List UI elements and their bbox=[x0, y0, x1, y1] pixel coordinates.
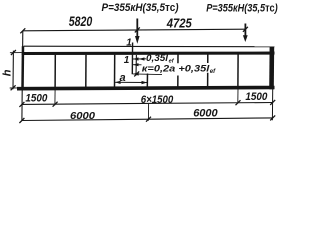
row1 tick 2 bbox=[53, 102, 58, 107]
load axis inside beam bbox=[135, 55, 137, 76]
svg-text:1: 1 bbox=[126, 37, 132, 48]
svg-text:6000: 6000 bbox=[70, 111, 95, 122]
load arrow 2 shaft bbox=[244, 24, 246, 37]
dimension text 4725 bbox=[166, 16, 192, 31]
left support axis line bbox=[21, 31, 24, 121]
svg-text:1500: 1500 bbox=[245, 91, 268, 103]
dim line k= bbox=[133, 64, 142, 66]
beam top thick band bbox=[22, 52, 275, 56]
arrow a2 bbox=[139, 57, 145, 60]
row1 tick 3 bbox=[236, 100, 241, 105]
h tick bottom bbox=[11, 85, 16, 90]
h extension bottom bbox=[10, 87, 19, 89]
svg-text:к=0,2а +0,35l: к=0,2а +0,35l bbox=[142, 63, 210, 74]
row2 dimension line bbox=[22, 118, 273, 121]
dimension text 5820 bbox=[69, 13, 93, 29]
beam bottom thick band bbox=[17, 88, 275, 89]
svg-text:а: а bbox=[120, 72, 126, 84]
text k=0,2a+0,35lef bbox=[142, 63, 216, 75]
svg-text:6000: 6000 bbox=[193, 108, 218, 120]
dim line 0,35lef bbox=[133, 58, 146, 60]
divider 4 bbox=[146, 74, 148, 88]
row1 tick 1 bbox=[19, 102, 24, 107]
h extension top bbox=[10, 52, 22, 54]
load P2 label bbox=[206, 3, 278, 15]
h dimension line bbox=[12, 51, 14, 90]
divider 1 bbox=[54, 55, 56, 88]
text 6000 right bbox=[193, 108, 218, 120]
arrow k1 bbox=[133, 63, 139, 66]
row1 tick 4 bbox=[270, 100, 275, 105]
divider 7 bbox=[237, 54, 239, 87]
h label bbox=[1, 69, 13, 76]
tick at load 2 bbox=[243, 27, 248, 32]
svg-text:P=355кН(35,5тс): P=355кН(35,5тс) bbox=[102, 2, 179, 14]
divider 5 bbox=[177, 54, 179, 63]
text 6000 left bbox=[70, 111, 95, 122]
load arrow 1 shaft bbox=[136, 19, 138, 38]
divider 2 bbox=[85, 55, 87, 88]
text 1500 left bbox=[25, 93, 48, 105]
load arrow 2 head bbox=[243, 35, 248, 42]
row2 tick right bbox=[270, 115, 275, 120]
a arrow right bbox=[142, 81, 148, 84]
a label bbox=[120, 72, 126, 84]
svg-text:еf: еf bbox=[210, 69, 216, 75]
load arrow 1 head bbox=[135, 36, 140, 44]
text 1500 right bbox=[245, 91, 268, 103]
ext divider1 down bbox=[54, 89, 56, 105]
svg-text:h: h bbox=[1, 69, 13, 76]
section line 1-1 bbox=[131, 43, 133, 75]
svg-text:1: 1 bbox=[124, 55, 130, 66]
a arrow left bbox=[115, 81, 121, 84]
load P1 label bbox=[102, 2, 179, 14]
arrow a1 bbox=[133, 57, 139, 60]
section label 1 lower bbox=[124, 55, 130, 66]
beam left edge bbox=[21, 46, 24, 89]
text 0,35lef bbox=[146, 53, 175, 64]
arrow x1 bbox=[133, 72, 139, 75]
divider 6 bbox=[207, 54, 209, 63]
top dimension line bbox=[23, 29, 246, 31]
svg-text:5820: 5820 bbox=[69, 13, 93, 29]
h tick top bbox=[11, 50, 16, 55]
svg-text:0,35l: 0,35l bbox=[146, 53, 169, 63]
svg-text:P=355кН(35,5тс): P=355кН(35,5тс) bbox=[206, 3, 278, 15]
beam right edge bbox=[269, 47, 274, 90]
middle extension bbox=[147, 104, 149, 121]
row2 tick 1 bbox=[19, 118, 24, 123]
svg-text:6×1500: 6×1500 bbox=[141, 94, 174, 106]
slash at load axis crossing bbox=[134, 71, 139, 76]
section label 1 upper bbox=[126, 37, 132, 48]
beam top thin line bbox=[24, 45, 275, 48]
a dimension line bbox=[115, 81, 148, 83]
text 6x1500 bbox=[141, 94, 174, 106]
right axis extension bbox=[271, 89, 273, 120]
row1 dimension line bbox=[22, 103, 273, 105]
tick at load 1 bbox=[135, 27, 140, 32]
svg-text:4725: 4725 bbox=[166, 16, 192, 31]
tick left end bbox=[20, 28, 25, 33]
svg-text:1500: 1500 bbox=[25, 93, 48, 105]
dim line x= bbox=[133, 73, 162, 76]
ext divider7 down bbox=[237, 89, 239, 103]
divider 3 bbox=[114, 55, 116, 88]
row2 tick mid bbox=[146, 117, 151, 122]
